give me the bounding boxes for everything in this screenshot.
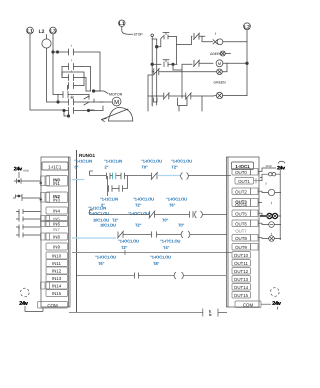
wire L2 into CT [46,35,48,39]
energized stub wire IN0 [72,179,85,181]
output row OUT10 [232,252,251,259]
svg-text:IN13: IN13 [52,276,62,281]
svg-text:COM: COM [243,302,254,307]
output row OUT14 [232,284,251,291]
output row OUT11 [232,260,251,267]
contact M2 pole small [84,96,89,105]
node L2 control circle [244,23,251,30]
wire from 24v down [18,172,20,178]
contact NC row2 [194,60,214,67]
wire CT down [47,48,59,102]
input row IN2/IN3 double box [46,192,68,203]
svg-text:2": 2" [105,165,109,170]
wire L1 vertical feed [30,34,63,110]
right common rail [279,169,281,240]
u-hook 2 [178,98,188,106]
svg-text:"1-I1C1.IN: "1-I1C1.IN [74,158,92,163]
contact R pole 1 [58,92,89,98]
svg-text:"1-IOC1.OU: "1-IOC1.OU [133,196,154,201]
svg-text:1-I1C1: 1-I1C1 [48,164,62,169]
wire L3 tap to F contact 1 [53,51,69,53]
contact EN on bottom wire [203,309,227,317]
right module rows [232,169,261,308]
wire second contact column [89,95,94,111]
contact XIC rung1 a [107,173,111,179]
wire rung1 [116,175,121,177]
svg-text:OUT7: OUT7 [235,229,247,234]
wire to lamp row [202,36,213,42]
svg-text:IN9: IN9 [53,245,60,250]
svg-text:"1-IOC1.OU: "1-IOC1.OU [95,255,116,260]
svg-text:IN12: IN12 [52,269,62,274]
terminal small circle [151,34,154,37]
svg-text:T0": T0" [142,165,148,170]
terminal box row6 [41,221,50,227]
branch vertical rung1 [107,176,109,196]
wire rail2 top join [152,38,157,40]
svg-text:IN3: IN3 [53,197,60,202]
svg-text:OUT12: OUT12 [234,269,249,274]
junction tick on y253 [124,250,126,255]
junction dot L3 tap [52,51,54,53]
svg-text:OUT14: OUT14 [234,285,249,290]
right module [227,157,260,307]
PLC input module frame [41,157,70,307]
input row IN9 [46,243,68,250]
contact XIO rung2 [149,211,155,219]
lamp pair row OUT1 [269,173,272,176]
left module rows [38,176,68,309]
wire to MOTOR label [94,91,108,94]
contact R pole 2 [58,99,94,105]
rung4 wire to right [183,275,227,277]
svg-text:M: M [218,62,221,66]
svg-text:0": 0" [75,165,79,170]
contact NC row3a [163,93,186,99]
contact R pole 3 [64,108,89,114]
contact NC row1 [194,33,206,40]
svg-text:"1-IOC1.OU: "1-IOC1.OU [171,158,192,163]
junction dots R bank [57,101,59,103]
svg-text:stop: stop [266,164,272,168]
terminal box row14 [41,282,50,289]
junction dot rail 2 [151,63,154,66]
contact NC row2b [152,69,206,76]
svg-text:OUT5: OUT5 [235,211,247,216]
svg-text:"1-IOC1.OU: "1-IOC1.OU [166,196,187,201]
wire lamp to right rail [223,41,247,43]
wire mesh vertical stubs bottom [152,96,202,111]
wire row2 [152,63,161,65]
rung2 wire to right [202,214,227,216]
left module [41,157,70,307]
junction dot row2 [172,63,174,65]
node L1 control circle [119,20,125,26]
rung4 wire 2 [139,275,174,277]
wire L1 hook [122,26,133,34]
svg-text:IN8: IN8 [53,235,60,240]
svg-text:IN15: IN15 [52,291,62,296]
terminal box row0 [41,176,50,186]
wire L3 vertical feed [53,34,58,95]
coil MTR bottom [216,92,222,98]
svg-text:T2": T2" [121,245,127,250]
input row IN15 [46,290,68,297]
svg-text:"1-IOC1.OU: "1-IOC1.OU [141,158,162,163]
junction dot right rail [246,62,249,65]
rung1 start bracket [90,171,94,176]
wire motor connections [89,102,104,111]
output row OUT8 [232,235,251,242]
svg-text:OUT11: OUT11 [234,261,248,266]
wire coil row to rails [213,95,247,98]
svg-text:"1-IOC1.OU: "1-IOC1.OU [118,239,139,244]
input row IN10 [46,252,68,259]
svg-text:T0": T0" [178,223,184,228]
input row IN14 [46,282,68,289]
contact XIO stop rung1 [151,172,158,180]
contact F pole 4 [69,83,85,89]
rung1 wire [90,175,107,177]
lamp RED circle with X [213,40,217,44]
pushbutton PB1 stop [163,33,169,40]
pushbutton PB2 start [163,60,169,67]
input row IN12 [46,267,68,274]
svg-text:24v: 24v [19,301,29,307]
svg-text:f: f [215,32,216,36]
wire F pole2 left drop [61,67,63,77]
svg-text:IN1: IN1 [53,181,60,186]
svg-text:"1-I?C1.OU: "1-I?C1.OU [160,239,180,244]
output row OUT13 [232,276,251,283]
contact XIC rung4 [135,273,139,279]
header box 1-IOC1 [232,162,254,170]
svg-text:IN4: IN4 [53,208,60,213]
wire coil to right rail [223,62,247,64]
switch cluster S4 [16,225,41,230]
switch S2 [13,194,41,201]
nested wire rectangle [62,72,84,90]
svg-text:10C1.DU: 10C1.DU [100,223,116,228]
svg-text:OUT6: OUT6 [235,221,247,226]
svg-text:f: f [71,59,72,63]
wire right rail vertical [246,30,248,96]
svg-text:OUT0: OUT0 [235,170,247,175]
svg-text:"1-IOC1.OU: "1-IOC1.OU [88,211,109,216]
terminal box row5 [41,216,50,222]
u-hook 1 [154,98,158,102]
svg-text:"1-I1C1.IN: "1-I1C1.IN [104,158,122,163]
svg-text:RUNG1: RUNG1 [79,153,96,158]
svg-text:OUT2: OUT2 [235,189,247,194]
output row OUT1 [235,178,254,185]
coil OTE rung2 [195,211,203,218]
coil M circle [216,60,223,67]
PLC output module frame [227,157,260,307]
wire OUT0 to supply [258,168,276,172]
wire mesh row y96 [148,95,164,97]
wire coil to right [188,175,231,177]
wire R bank verticals [58,95,69,117]
rung4 wire [77,275,134,277]
lamp row OUT8 [269,236,275,242]
svg-text:IN14: IN14 [52,284,62,289]
contact F pole 2 [62,64,91,92]
wire long gray bottom y312 [69,312,203,314]
svg-text:24v: 24v [277,165,285,171]
contact XIC branch b [119,185,123,191]
wire lamp2b [206,63,227,72]
output row COM [235,301,261,308]
wire drop to row2 [176,45,178,65]
svg-text:IN6: IN6 [53,221,60,226]
supply arc top right [278,161,285,163]
svg-text:"1-I1C1.IN: "1-I1C1.IN [100,196,118,201]
svg-text:24v: 24v [272,301,282,307]
svg-text:OUT13: OUT13 [234,277,249,282]
contact XIC rung1 c [121,173,125,179]
wire supply right [261,304,278,309]
svg-text:GREEN: GREEN [214,80,227,84]
contact tick rung2 [190,211,194,217]
svg-text:STOP: STOP [134,33,144,37]
dashed supply circle right [271,288,280,297]
svg-text:T2": T2" [135,203,141,208]
svg-text:T6": T6" [98,261,104,266]
output row OUT9 [232,244,251,251]
input row IN4 [46,207,68,214]
coil OTE rung1 [181,173,189,180]
wire bracket row2 [173,64,192,70]
svg-text:L2: L2 [39,29,45,35]
wire mesh vertical x182 [181,70,183,98]
wire rung1 to NC [125,175,152,177]
node L1 terminal circle [27,27,34,34]
branch rejoin [123,176,128,189]
rung3 wire to right [190,234,227,236]
contact NC row3b [185,93,213,99]
svg-text:"1-IOC1.OU: "1-IOC1.OU [128,211,149,216]
contact XIC rung3 [152,231,157,237]
svg-text:T8": T8" [153,261,159,266]
header box 1-I1C1 [42,162,68,170]
contact F pole 3 [62,75,91,92]
svg-text:f: f [71,70,72,74]
border line ladder left [76,150,78,313]
svg-text:f: f [271,202,272,206]
svg-text:T4": T4" [163,245,169,250]
svg-text:OUT4: OUT4 [235,202,247,207]
lamp small green [220,51,225,56]
svg-text:"1-IOC1.OU: "1-IOC1.OU [150,255,171,260]
svg-text:OUT10: OUT10 [234,253,249,258]
rung3 wire 2 [157,234,182,236]
wire OUT3 out [258,202,262,204]
svg-text:T2": T2" [172,165,178,170]
wire row1 contd [168,36,192,44]
switch S1 start [14,178,41,183]
motor hump body [109,107,133,121]
current transformer CT circle under L2 [42,39,51,48]
wire rail2 vertical [156,39,158,105]
node L3 terminal circle [50,27,57,34]
rung3 wire [123,234,152,236]
svg-text:24v: 24v [14,166,22,172]
wire row1 to PB1 [157,36,163,46]
rung2 wire [90,214,150,216]
motor arrow [102,109,129,122]
contact XIC branch a [109,185,113,191]
svg-text:f: f [266,182,267,186]
dashed supply circle bottom [21,288,30,297]
terminal box row2 [41,193,50,203]
coil OTE rung3 [181,231,190,238]
output row OUT6 [232,220,251,227]
rung2 start bracket [90,210,94,215]
svg-text:IN11: IN11 [52,261,62,266]
output row OUT12 [232,268,251,275]
motor M circle [100,101,112,103]
output row OUT0 [232,169,251,176]
terminal box row8 [41,233,50,240]
svg-text:OUT15: OUT15 [234,293,249,298]
svg-text:OUT8: OUT8 [235,236,247,241]
branch wire rung1 [108,188,109,190]
dark lamp pair row OUT5 [258,213,267,216]
svg-text:T2": T2" [135,223,141,228]
svg-text:MOTOR: MOTOR [109,93,123,97]
input row IN6 [46,221,68,227]
svg-text:M: M [114,99,119,106]
wire mesh vertical x148 [148,75,152,111]
svg-text:IN10: IN10 [52,254,62,259]
contact XIC rung1 b (energized) [113,173,116,179]
svg-text:stop: stop [23,169,29,173]
wire supply to COM [25,306,43,311]
left field devices [13,166,43,311]
input row IN5 [46,216,68,222]
rung3 energized stub [72,237,116,239]
svg-text:OUT9: OUT9 [235,245,247,250]
wire long gray y253 [72,252,232,254]
input row IN0/IN1 double box [46,176,68,187]
junction dot branch [56,51,58,53]
svg-text:COM: COM [47,303,58,308]
right field devices [258,161,285,309]
lamp row OUT2 [268,189,274,195]
svg-text:IN7: IN7 [53,227,60,232]
input row COM [38,302,68,309]
junction dot rail 1 [155,45,158,48]
switch cluster S3 [16,209,41,214]
output row OUT15 [232,292,251,299]
svg-text:T0": T0" [162,218,168,223]
wire row2 contd [168,63,177,65]
svg-text:T6": T6" [169,203,175,208]
lamp row2b [217,69,223,75]
wire left rail [151,37,153,105]
coil OTE rung4 [174,272,183,279]
energized wire to coil [157,175,181,177]
input row IN11 [46,260,68,267]
svg-text:OUT1: OUT1 [238,179,250,184]
lamp row OUT6 [269,222,275,228]
junction dot motor feed [92,90,95,93]
svg-text:f: f [71,44,72,48]
contact F pole 1 [69,49,101,91]
input row IN8 [46,233,68,240]
input row IN13 [46,275,68,282]
output row OUT2 [232,188,251,195]
output row OUT5 [232,210,251,217]
output row OUT3/OUT4 overlapped [232,199,251,207]
rung2 wire to coil [155,214,190,216]
contact XIO rung3 [117,231,123,239]
